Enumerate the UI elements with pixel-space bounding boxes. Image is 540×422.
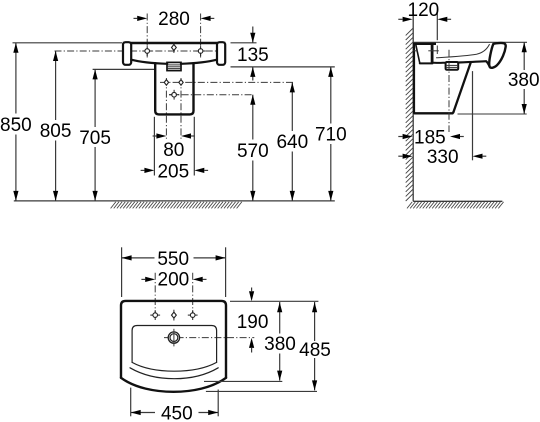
svg-text:850: 850 (0, 115, 32, 136)
svg-text:570: 570 (237, 141, 269, 162)
svg-text:640: 640 (276, 132, 308, 153)
svg-text:710: 710 (315, 125, 347, 146)
svg-text:485: 485 (299, 340, 331, 361)
svg-text:80: 80 (163, 140, 184, 161)
svg-text:190: 190 (237, 312, 269, 333)
svg-text:280: 280 (158, 9, 190, 30)
svg-text:550: 550 (157, 249, 189, 270)
svg-text:705: 705 (79, 128, 111, 149)
svg-text:120: 120 (408, 0, 440, 21)
svg-text:380: 380 (264, 334, 296, 355)
svg-text:805: 805 (40, 121, 72, 142)
svg-text:380: 380 (508, 70, 540, 91)
svg-text:205: 205 (157, 162, 189, 183)
svg-text:450: 450 (161, 404, 193, 422)
svg-text:185: 185 (414, 127, 446, 148)
svg-text:330: 330 (427, 147, 459, 168)
svg-text:135: 135 (237, 45, 269, 66)
svg-text:200: 200 (158, 270, 190, 291)
